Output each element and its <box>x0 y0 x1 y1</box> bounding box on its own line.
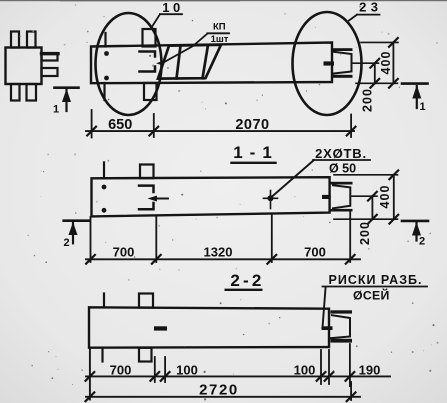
svg-text:23: 23 <box>359 0 382 15</box>
svg-text:200: 200 <box>358 221 372 245</box>
svg-text:КП: КП <box>213 21 226 32</box>
svg-text:ØСЕЙ: ØСЕЙ <box>353 288 390 303</box>
svg-text:400: 400 <box>379 51 393 75</box>
fork bottom bar 2-2 <box>331 339 353 343</box>
end view body <box>6 48 42 85</box>
ellipse 23 <box>293 12 362 115</box>
end view top tab 2 <box>27 32 36 48</box>
plate above 2-2 <box>139 294 153 308</box>
KP plate parallelogram <box>158 45 221 79</box>
svg-text:700: 700 <box>304 244 326 259</box>
risk tick above 1-1 <box>103 162 105 178</box>
beam section 1-1 <box>92 177 330 216</box>
svg-text:2-2: 2-2 <box>230 271 264 290</box>
bracket KP (plan) <box>140 52 156 72</box>
risk tick above (plan) <box>104 33 106 47</box>
beam section 2-2 <box>89 307 329 347</box>
extensions dim row 1-1 <box>90 217 92 262</box>
beam plan outline <box>91 43 332 84</box>
risk tick below 2-2 <box>101 348 103 362</box>
extensions row1 2-2 <box>89 349 91 400</box>
svg-text:10: 10 <box>162 0 183 15</box>
axis mark 1-1 <box>322 195 331 199</box>
risk tick below (plan) <box>103 83 105 100</box>
end view right tab 2 <box>42 68 58 76</box>
risk tick above 2-2 <box>103 294 105 308</box>
fork bottom bar 1-1 <box>330 209 353 212</box>
svg-text:100: 100 <box>176 362 198 377</box>
plate above 1-1 <box>140 165 154 179</box>
extension top 400 1-1 <box>334 174 398 176</box>
hole center 1-1 <box>268 195 274 201</box>
fork socket 1-1 <box>333 185 350 208</box>
svg-text:200: 200 <box>361 88 375 112</box>
svg-text:2070: 2070 <box>235 117 269 133</box>
axis mark (plan right end) <box>324 61 335 65</box>
dim line row1 2-2 <box>86 375 390 377</box>
fork top bar (plan right end) <box>332 48 353 51</box>
plate below 2-2 <box>139 348 152 362</box>
fork top bar 1-1 <box>330 182 353 185</box>
parallelogram rib 2 <box>203 45 209 78</box>
svg-text:190: 190 <box>359 362 381 377</box>
hole leader <box>272 160 315 197</box>
svg-text:Ø 50: Ø 50 <box>329 162 356 176</box>
ellipse 10 <box>96 13 162 115</box>
hole dot lower (plan) <box>104 76 109 81</box>
dim line 200 (plan) <box>374 63 376 83</box>
leader arrow to bracket <box>156 61 164 66</box>
hole dot upper (plan) <box>104 51 109 56</box>
svg-text:1: 1 <box>419 101 425 113</box>
fork top bar 2-2 <box>331 310 353 313</box>
extension 2720 right <box>350 382 352 400</box>
svg-text:2: 2 <box>419 236 425 248</box>
dim line 400 1-1 <box>393 175 395 219</box>
weld arrow 1-1 <box>152 198 168 200</box>
dim line row 1-1 <box>86 258 360 260</box>
extension top 400 (plan) <box>361 41 398 43</box>
extension 2070 right <box>350 115 352 138</box>
svg-text:1: 1 <box>53 104 59 116</box>
end view right tab 1 <box>42 53 58 61</box>
bracket 1-1 <box>139 186 154 210</box>
svg-text:100: 100 <box>294 362 316 377</box>
svg-text:РИСКИ РАЗБ.: РИСКИ РАЗБ. <box>329 273 423 287</box>
dim line 650+2070 <box>86 130 354 132</box>
fork socket 2-2 <box>331 315 350 338</box>
extension mid 200 (plan) <box>352 62 379 64</box>
extension 650 left <box>91 110 93 138</box>
extension bottom 1-1 <box>334 218 398 220</box>
top scan border <box>0 0 447 1</box>
leader blob 2-2 <box>322 326 333 330</box>
plate below beam (plan) <box>144 83 157 100</box>
fork socket (plan right end) <box>334 52 352 74</box>
axis dash inside 2-2 <box>154 326 167 330</box>
svg-text:1320: 1320 <box>204 244 233 259</box>
extension bottom (plan) <box>356 82 398 84</box>
plate above beam (plan) <box>143 29 156 47</box>
end view top tab 1 <box>11 32 19 48</box>
svg-text:1шт: 1шт <box>211 34 229 45</box>
svg-text:2ХØТВ.: 2ХØТВ. <box>315 146 367 161</box>
svg-text:2720: 2720 <box>199 381 239 398</box>
svg-text:700: 700 <box>113 244 135 259</box>
svg-text:650: 650 <box>108 117 132 133</box>
hole dot lower 1-1 <box>102 208 107 213</box>
section marker 2 right <box>402 221 428 241</box>
section marker 1 left <box>55 88 79 111</box>
svg-text:1-1: 1-1 <box>233 143 279 162</box>
dim line 2720 <box>86 396 360 398</box>
dim line 400 (plan) <box>392 42 394 83</box>
svg-text:400: 400 <box>378 185 392 209</box>
parallelogram rib 1 <box>177 46 181 79</box>
fork bottom bar (plan right end) <box>332 75 353 78</box>
end view bottom tab 1 <box>11 84 20 101</box>
section marker 1 right <box>402 84 428 108</box>
end view bottom tab 2 <box>27 84 37 101</box>
dim line 200 1-1 <box>371 196 373 219</box>
svg-text:2: 2 <box>63 237 69 249</box>
extension mid 200 1-1 <box>352 195 377 197</box>
extension 650/2070 <box>153 114 155 137</box>
svg-text:700: 700 <box>110 362 132 377</box>
hole dot upper 1-1 <box>102 185 107 190</box>
leader KP line <box>162 34 208 64</box>
section marker 2 left <box>64 221 89 244</box>
leader line riski <box>323 287 326 327</box>
